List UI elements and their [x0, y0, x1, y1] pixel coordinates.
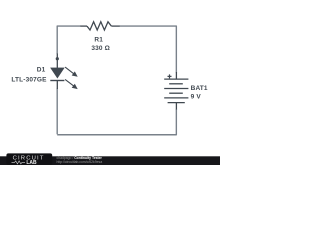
battery plate 3 long — [164, 88, 188, 90]
svg-text:D1: D1 — [37, 66, 46, 73]
wire right side lower and bottom — [57, 110, 176, 135]
svg-text:9 V: 9 V — [191, 93, 202, 100]
logo waveform — [12, 161, 26, 164]
LED arrow 1 — [65, 67, 78, 77]
LED D1 cathode bar — [50, 80, 64, 82]
battery plate 6 bottom — [168, 102, 185, 104]
LED D1 triangle — [51, 68, 64, 78]
battery lead top — [175, 72, 177, 79]
wire top-right segment — [119, 26, 176, 72]
battery plate 2 short — [169, 83, 183, 85]
wire left and top-left segment — [57, 26, 81, 54]
svg-text:LAB: LAB — [26, 160, 37, 165]
LED lead bottom — [56, 81, 58, 90]
battery lead bottom — [175, 103, 177, 110]
node junction dot — [56, 57, 59, 60]
resistor R1 zigzag — [87, 22, 111, 30]
battery plate 4 short — [169, 92, 183, 94]
svg-text:BAT1: BAT1 — [191, 85, 208, 92]
LED arrow 2 — [65, 79, 78, 89]
battery plate 1 long — [164, 78, 188, 80]
svg-text:330 Ω: 330 Ω — [91, 45, 110, 52]
svg-text:R1: R1 — [94, 37, 103, 44]
watermark logo box — [6, 153, 52, 165]
battery plate 5 long — [164, 97, 188, 99]
svg-text:LTL-307GE: LTL-307GE — [11, 76, 47, 83]
svg-text:http://circuitlab.com/c/62k9es: http://circuitlab.com/c/62k9esa — [57, 160, 103, 164]
resistor R1 lead left — [81, 25, 88, 27]
resistor R1 lead right — [111, 25, 119, 27]
watermark bottom bar — [0, 156, 220, 165]
wire left side lower — [56, 89, 58, 135]
battery BAT1 plus sign — [168, 74, 172, 78]
LED lead top — [56, 54, 58, 69]
